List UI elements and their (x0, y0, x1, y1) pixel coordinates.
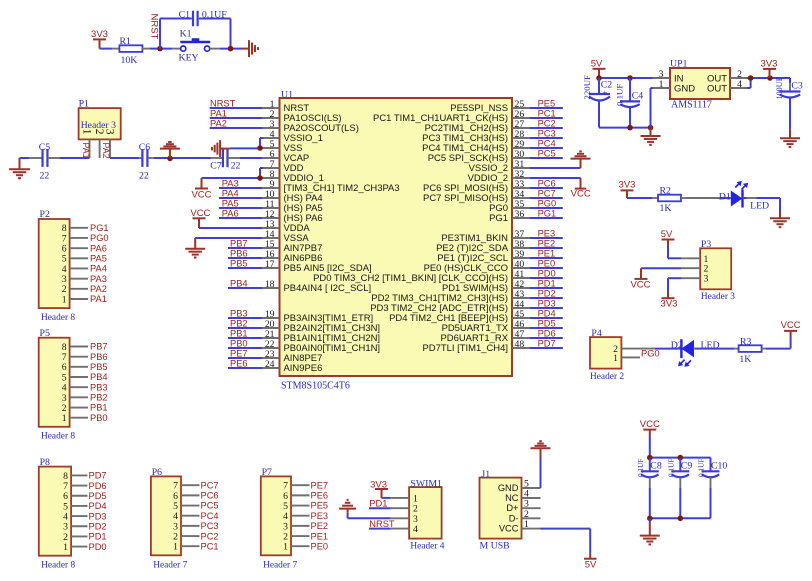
svg-text:NRST: NRST (369, 519, 395, 529)
P5 pin 8 PB7 (62, 342, 108, 353)
svg-text:PD3: PD3 (538, 299, 556, 309)
LED D2 (671, 339, 720, 367)
ground (D1) (770, 216, 790, 227)
svg-text:PA1: PA1 (81, 143, 91, 159)
SWIM1 pin 1 (391, 493, 418, 504)
P4 pin 1 PG0 (613, 349, 659, 364)
svg-text:P6: P6 (152, 467, 162, 478)
P7 pin 5 PE5 (283, 501, 328, 512)
connector P4 Header 2 (590, 328, 624, 382)
svg-text:3V3: 3V3 (619, 180, 636, 191)
svg-text:PE3: PE3 (538, 229, 556, 239)
wire C5 to P1 pin 1 (59, 157, 89, 159)
svg-text:3V3: 3V3 (661, 299, 678, 310)
wire VSSA pin 14 (195, 237, 262, 239)
U1 pin 39 PE1 (T)I2C_SCL (437, 249, 530, 264)
wire VDD net pins 7,8 (202, 168, 264, 178)
power port 3V3 (regulator output) (761, 59, 778, 79)
P5 pin 2 PB1 (62, 403, 108, 414)
svg-text:PG0: PG0 (641, 349, 660, 359)
net label NRST wire to pin 1 (210, 99, 262, 109)
net label PB0 wire (228, 339, 262, 349)
svg-text:C9: C9 (681, 461, 693, 472)
svg-text:Header 2: Header 2 (590, 372, 624, 382)
svg-text:D-: D- (509, 513, 519, 523)
P7 pin 2 PE1 (283, 531, 328, 542)
junction dot pin8 (257, 175, 263, 181)
svg-text:PC5: PC5 (538, 149, 556, 159)
svg-text:P2: P2 (40, 209, 50, 220)
capacitor C4 0.1UF (615, 78, 644, 128)
U1 pin 3 PA2OSCOUT(LS) (262, 119, 359, 134)
U1 pin 4 VSSIO_1 (262, 129, 323, 144)
net label PD7 wire (530, 339, 563, 349)
P2 pin 6 PA6 (62, 243, 107, 254)
svg-text:0.1UF: 0.1UF (667, 459, 676, 477)
U1 pin 12 (HS) PA6 (262, 209, 323, 224)
P7 pin 1 PE0 (283, 541, 328, 552)
net label NRST wire to SWIM pin 4 (369, 519, 395, 529)
P2 pin 3 PA3 (62, 274, 107, 285)
ground (C3) (780, 129, 800, 147)
svg-text:C10: C10 (711, 461, 727, 472)
U1 pin 17 PB5 AIN5 [I2C_SDA] (262, 259, 372, 274)
wire P1 pin 3 to C6 (110, 157, 139, 159)
capacitor C6 22 (139, 142, 154, 182)
net label PC1 wire (530, 109, 563, 119)
P2 pin 5 PA5 (62, 254, 107, 265)
U1 pin 40 PE0 (HS)CLK_CCO (424, 259, 530, 274)
svg-text:PG0: PG0 (90, 233, 109, 243)
wire 3V3 to R2 (627, 197, 652, 199)
connector J1 M USB (480, 469, 522, 552)
svg-text:PA6: PA6 (222, 209, 239, 219)
svg-text:PB7: PB7 (90, 342, 108, 352)
junction dot C4 top (627, 75, 633, 81)
svg-text:VCC: VCC (571, 189, 591, 200)
net label PC7 wire (530, 189, 563, 199)
svg-text:PB0: PB0 (230, 339, 248, 349)
P5 pin 4 PB3 (62, 382, 108, 393)
U1 pin 10 (HS) PA4 (262, 189, 323, 204)
U1 pin 31 VSSIO_2 (469, 159, 530, 174)
net label PB4 wire (228, 279, 262, 289)
net label PD0 wire (530, 269, 563, 279)
net label PE3 wire (530, 229, 563, 239)
svg-text:PD0: PD0 (89, 542, 107, 552)
U1 pin 43 PD2 TIM3_CH1[TIM2_CH3](HS) (371, 289, 530, 304)
wire VDDIO_2 pin 32 to VCC (530, 177, 581, 179)
svg-text:PA2: PA2 (210, 119, 227, 129)
P1 pin 2 (93, 129, 105, 158)
U1 pin 16 AIN6PB6 (262, 249, 322, 264)
power port 5V (regulator input) (591, 59, 606, 79)
svg-text:PA5: PA5 (222, 199, 239, 209)
svg-text:PC7: PC7 (538, 189, 556, 199)
svg-text:1: 1 (81, 129, 93, 135)
net label PD3 wire (530, 299, 563, 309)
wire J1 VCC to 5V (541, 529, 591, 553)
wire top to C1 (160, 18, 192, 20)
wire 5V input rail (599, 77, 653, 79)
P6 pin 3 PC3 (173, 521, 218, 532)
svg-text:5V: 5V (585, 559, 597, 570)
power port VCC (P3, inverted) (630, 268, 650, 290)
U1 pin 46 PD5UART1_TX (442, 319, 530, 334)
U1 pin 47 PD6UART1_RX (441, 329, 531, 344)
wire P3 pin 3 to 3V3 (668, 278, 681, 292)
svg-text:PE3: PE3 (311, 511, 329, 521)
svg-text:PE0: PE0 (538, 259, 556, 269)
ground (SWIM, inverted) (339, 500, 356, 513)
P8 pin 1 PD0 (63, 542, 106, 553)
svg-text:18: 18 (265, 279, 275, 290)
svg-text:PD0: PD0 (538, 269, 556, 279)
svg-text:4: 4 (737, 79, 742, 90)
net label PE7 wire (228, 349, 262, 359)
P8 pin 4 PD3 (63, 511, 106, 522)
svg-text:0.1UF: 0.1UF (615, 84, 625, 106)
svg-text:K1: K1 (180, 29, 192, 40)
svg-text:NRST: NRST (149, 14, 160, 40)
wire VSSIO_2 pin 31 to ground (530, 167, 581, 169)
junction dot output (748, 75, 754, 81)
svg-text:PC4: PC4 (201, 511, 219, 521)
svg-text:PB4AIN4 [ I2C_SCL]: PB4AIN4 [ I2C_SCL] (284, 283, 372, 294)
svg-text:PD6: PD6 (89, 481, 107, 491)
wire VCC to VDDA pin 13 (199, 227, 262, 229)
U1 pin 23 AIN8PE7 (262, 349, 322, 364)
U1 pin 13 VDDA (262, 219, 310, 234)
svg-text:PA1: PA1 (210, 109, 227, 119)
wire C1 to right corner (199, 19, 231, 49)
svg-text:PG1: PG1 (90, 223, 109, 233)
P8 pin 6 PD5 (63, 491, 106, 502)
U1 pin 5 VSS (262, 139, 302, 154)
svg-text:AIN9PE6: AIN9PE6 (284, 363, 323, 374)
microcontroller U1 STM8S105C4T6 (280, 89, 513, 391)
capacitor C7 22 (210, 149, 240, 172)
svg-text:PB3: PB3 (90, 382, 108, 392)
svg-text:NC: NC (505, 493, 519, 503)
P5 pin 6 PB5 (62, 362, 108, 373)
svg-text:NRST: NRST (210, 99, 236, 109)
ground (VSSA) (185, 238, 205, 258)
UP1 pin 4 OUT (730, 79, 747, 90)
P3 pin 1 (681, 254, 709, 265)
U1 pin 24 AIN9PE6 (262, 359, 322, 374)
U1 pin 26 PC1 TIM1_CH1UART1_CK(HS) (373, 109, 530, 124)
svg-text:3V3: 3V3 (761, 59, 778, 70)
junction dot C8 bottom (647, 516, 653, 522)
net label PD1 wire (530, 279, 563, 289)
net label PE0 wire (530, 259, 563, 269)
P2 pin 1 PA1 (62, 294, 107, 305)
net label PC6 wire (530, 179, 563, 189)
svg-text:1: 1 (62, 294, 67, 305)
P6 pin 1 PC1 (173, 541, 218, 552)
svg-text:PC6: PC6 (201, 491, 219, 501)
svg-text:PB1: PB1 (230, 329, 248, 339)
svg-text:PA6: PA6 (90, 243, 107, 253)
svg-text:2: 2 (93, 129, 105, 135)
switch K1 KEY (172, 29, 220, 64)
svg-text:PG0: PG0 (538, 199, 557, 209)
svg-text:36: 36 (515, 209, 525, 220)
svg-text:P1: P1 (79, 99, 89, 110)
svg-text:PE6: PE6 (311, 491, 329, 501)
U1 pin 28 PC3 TIM1_CH3(HS) (422, 129, 530, 144)
U1 pin 29 PC4 TIM1_CH4(HS) (422, 139, 530, 154)
svg-text:PB3: PB3 (230, 309, 248, 319)
svg-text:C1: C1 (179, 10, 191, 21)
svg-text:PD4: PD4 (538, 309, 556, 319)
svg-text:PE7: PE7 (230, 349, 248, 359)
svg-text:M USB: M USB (480, 541, 511, 552)
U1 pin 7 VDD (262, 159, 304, 174)
U1 pin 18 PB4AIN4 [ I2C_SCL] (262, 279, 371, 294)
net label PD4 wire (530, 309, 563, 319)
net label PE2 wire (530, 239, 563, 249)
svg-text:PE6: PE6 (230, 359, 248, 369)
svg-text:1: 1 (62, 413, 67, 424)
P7 pin 4 PE3 (283, 511, 328, 522)
svg-text:KEY: KEY (179, 53, 199, 64)
ground (J1 GND, inverted) (531, 441, 551, 458)
svg-text:PE0: PE0 (311, 541, 329, 551)
P2 pin 8 PG1 (62, 223, 109, 234)
wire D1 to ground (743, 198, 781, 217)
U1 pin 22 PB0AIN0[TIM1_CH1N] (262, 339, 380, 354)
U1 pin 42 PD1 SWIM(HS) (442, 279, 530, 294)
svg-text:PA3: PA3 (90, 274, 107, 284)
svg-text:SWIM1: SWIM1 (410, 478, 442, 489)
svg-text:PD7: PD7 (538, 339, 556, 349)
P8 pin 5 PD4 (63, 501, 106, 512)
svg-text:Header 8: Header 8 (41, 313, 75, 323)
svg-text:1: 1 (659, 79, 664, 90)
svg-text:PB4: PB4 (90, 372, 108, 382)
U1 pin 27 PC2TIM1_CH2(HS) (425, 119, 530, 134)
svg-text:PB7: PB7 (230, 239, 248, 249)
U1 pin 11 (HS) PA5 (262, 199, 323, 214)
svg-text:PG1: PG1 (489, 213, 508, 224)
svg-text:PC2: PC2 (201, 531, 219, 541)
svg-text:17: 17 (265, 259, 275, 270)
svg-text:PB1: PB1 (90, 403, 108, 413)
svg-text:PD2: PD2 (538, 289, 556, 299)
svg-text:PA2: PA2 (90, 284, 107, 294)
P8 pin 3 PD2 (63, 521, 106, 532)
U1 pin 32 VDDIO_2 (468, 169, 530, 184)
svg-text:PD2: PD2 (89, 521, 107, 531)
P2 pin 7 PG0 (62, 233, 109, 244)
U1 pin 36 PG1 (489, 209, 530, 224)
svg-text:3: 3 (104, 129, 116, 135)
P5 pin 5 PB4 (62, 372, 108, 383)
svg-text:PE1: PE1 (538, 249, 556, 259)
svg-text:PD6: PD6 (538, 329, 556, 339)
junction dot 3V3 tap (767, 75, 773, 81)
svg-text:C5: C5 (39, 142, 51, 153)
svg-text:D1: D1 (719, 192, 731, 203)
svg-text:PA3: PA3 (222, 179, 239, 189)
resistor R3 1K (734, 336, 766, 365)
net label PB3 wire (228, 309, 262, 319)
P3 pin 3 (681, 274, 709, 285)
J1 pin 4 NC (522, 489, 541, 500)
connector SWIM1 Header 4 (409, 478, 445, 551)
header P1 Header 3 (79, 99, 121, 140)
U1 pin 30 PC5 SPI_SCK(HS) (428, 149, 530, 164)
ground (VSS net, rotated left) (212, 140, 230, 157)
connector P7 Header 7 (261, 467, 298, 571)
svg-text:PD5: PD5 (538, 319, 556, 329)
wire K1 to ground (220, 48, 242, 50)
net label PG0 wire (530, 199, 563, 209)
junction dot reset net (228, 46, 234, 52)
svg-text:P4: P4 (591, 328, 601, 339)
wire GND pin to rail (651, 88, 653, 128)
P8 pin 7 PD6 (63, 481, 106, 492)
svg-text:C3: C3 (791, 80, 803, 91)
svg-text:VCC: VCC (191, 190, 211, 201)
svg-text:PD7: PD7 (89, 471, 107, 481)
wire VSS net to pins 4,5 (230, 138, 263, 148)
J1 pin 3 D+ (522, 499, 541, 510)
U1 pin 25 PE5SPI_NSS (450, 99, 530, 114)
U1 pin 21 PB1AIN1[TIM1_CH2N] (262, 329, 380, 344)
wire pin4 up to output net (747, 78, 751, 88)
svg-text:P3: P3 (701, 239, 711, 250)
U1 pin 41 PD0 TIM3_CH2 [TIM1_BKIN] [CLK_CCO](HS) (313, 269, 530, 284)
svg-text:PC1: PC1 (201, 541, 219, 551)
wire 3V3 to R1 (100, 48, 113, 50)
net label PC4 wire (530, 139, 563, 149)
svg-text:Header 7: Header 7 (263, 561, 297, 571)
node NRST junction (157, 46, 163, 52)
svg-text:R1: R1 (120, 36, 132, 47)
wire P4 pin2 to D2 (655, 348, 681, 350)
net label PE1 wire (530, 249, 563, 259)
U1 pin 34 PC7 SPI_MISO(HS) (423, 189, 530, 204)
wire R2 to D1 (687, 197, 731, 199)
svg-text:Header 4: Header 4 (410, 542, 444, 552)
junction dot GND rail (648, 125, 654, 131)
svg-text:1: 1 (63, 542, 68, 553)
svg-text:P7: P7 (262, 467, 272, 478)
UP1 pin 2 OUT (730, 69, 747, 80)
svg-text:10K: 10K (121, 55, 138, 66)
svg-text:PC6: PC6 (538, 179, 556, 189)
net label PC2 wire (530, 119, 563, 129)
capacitor C8 0.1UF (636, 458, 662, 519)
P5 pin 7 PB6 (62, 352, 108, 363)
capacitor C3 100UF (electrolytic) (775, 76, 803, 129)
junction dot osc net (167, 156, 173, 162)
junction dot C4 bottom (627, 125, 633, 131)
svg-text:PB6: PB6 (230, 249, 248, 259)
ground (reset circuit, rotated right) (242, 40, 259, 57)
capacitor C9 0.1UF (667, 458, 693, 519)
P6 pin 5 PC5 (173, 501, 218, 512)
connector P2 Header 8 (39, 209, 76, 323)
U1 pin 44 PD3 TIM2_CH2 [ADC_ETR](HS) (370, 299, 530, 314)
svg-text:PD1: PD1 (89, 532, 107, 542)
svg-text:100UF: 100UF (775, 76, 784, 99)
svg-text:PB2: PB2 (90, 393, 108, 403)
svg-text:Header 7: Header 7 (153, 561, 187, 571)
svg-text:UP1: UP1 (670, 59, 688, 70)
svg-text:P8: P8 (40, 457, 50, 468)
svg-text:GND: GND (674, 84, 695, 95)
U1 pin 1 NRST (262, 99, 309, 114)
svg-text:PB4: PB4 (230, 279, 248, 289)
P2 pin 4 PA4 (62, 264, 107, 275)
net label PA5 wire (219, 199, 262, 209)
capacitor C10 0.1UF (697, 458, 728, 519)
net label PB2 wire (228, 319, 262, 329)
svg-text:3V3: 3V3 (91, 29, 108, 40)
capacitor C5 22 (29, 142, 59, 182)
svg-text:1K: 1K (739, 354, 751, 365)
svg-text:22: 22 (139, 171, 149, 182)
power port 3V3 (P3) (661, 292, 678, 310)
wire NRST riser (159, 19, 161, 49)
svg-text:R2: R2 (660, 186, 672, 197)
svg-text:PC2: PC2 (538, 119, 556, 129)
svg-text:PA4: PA4 (222, 189, 239, 199)
power port 3V3 (reset pull-up) (91, 29, 108, 49)
power port 5V (P3) (661, 229, 675, 246)
wire regulator ground rail (599, 127, 651, 129)
svg-text:PC1: PC1 (538, 109, 556, 119)
junction dot C8 top (647, 455, 653, 461)
connector P5 Header 8 (39, 328, 76, 441)
ground (VSSIO_2, inverted) (571, 151, 591, 168)
P1 pin 1 (81, 129, 93, 158)
P2 pin 2 PA2 (62, 284, 107, 295)
connector P6 Header 7 (151, 467, 188, 571)
net label PA6 wire (219, 209, 262, 219)
power port VCC (VDDA) (190, 208, 210, 228)
U1 pin 37 PE3TIM1_BKIN (441, 229, 530, 244)
svg-text:U1: U1 (281, 89, 293, 100)
svg-text:PA4: PA4 (90, 264, 107, 274)
svg-text:PC3: PC3 (201, 521, 219, 531)
svg-text:PC5: PC5 (201, 501, 219, 511)
U1 pin 38 PE2 (T)I2C_SDA (436, 239, 530, 254)
wire D2 to R3 (694, 348, 734, 350)
UP1 pin 1 GND (653, 79, 670, 90)
net label PB7 wire (228, 239, 262, 249)
net label PD1 wire to SWIM pin 2 (369, 499, 391, 509)
svg-text:PE2: PE2 (538, 239, 556, 249)
connector P3 Header 3 (700, 239, 735, 302)
svg-text:5V: 5V (661, 229, 673, 240)
U1 pin 8 VDDIO_1 (262, 169, 324, 184)
svg-text:PG1: PG1 (538, 209, 557, 219)
net label PB6 wire (228, 249, 262, 259)
svg-text:PD1: PD1 (369, 499, 387, 509)
svg-text:22: 22 (40, 171, 50, 182)
svg-text:PD7TLI [TIM1_CH4]: PD7TLI [TIM1_CH4] (423, 343, 509, 354)
net label PB1 wire (228, 329, 262, 339)
wire 3V3 to SWIM pin 1 (382, 497, 391, 499)
svg-text:VCC: VCC (499, 524, 519, 534)
svg-text:AMS1117: AMS1117 (671, 100, 712, 111)
svg-text:22: 22 (231, 160, 241, 171)
